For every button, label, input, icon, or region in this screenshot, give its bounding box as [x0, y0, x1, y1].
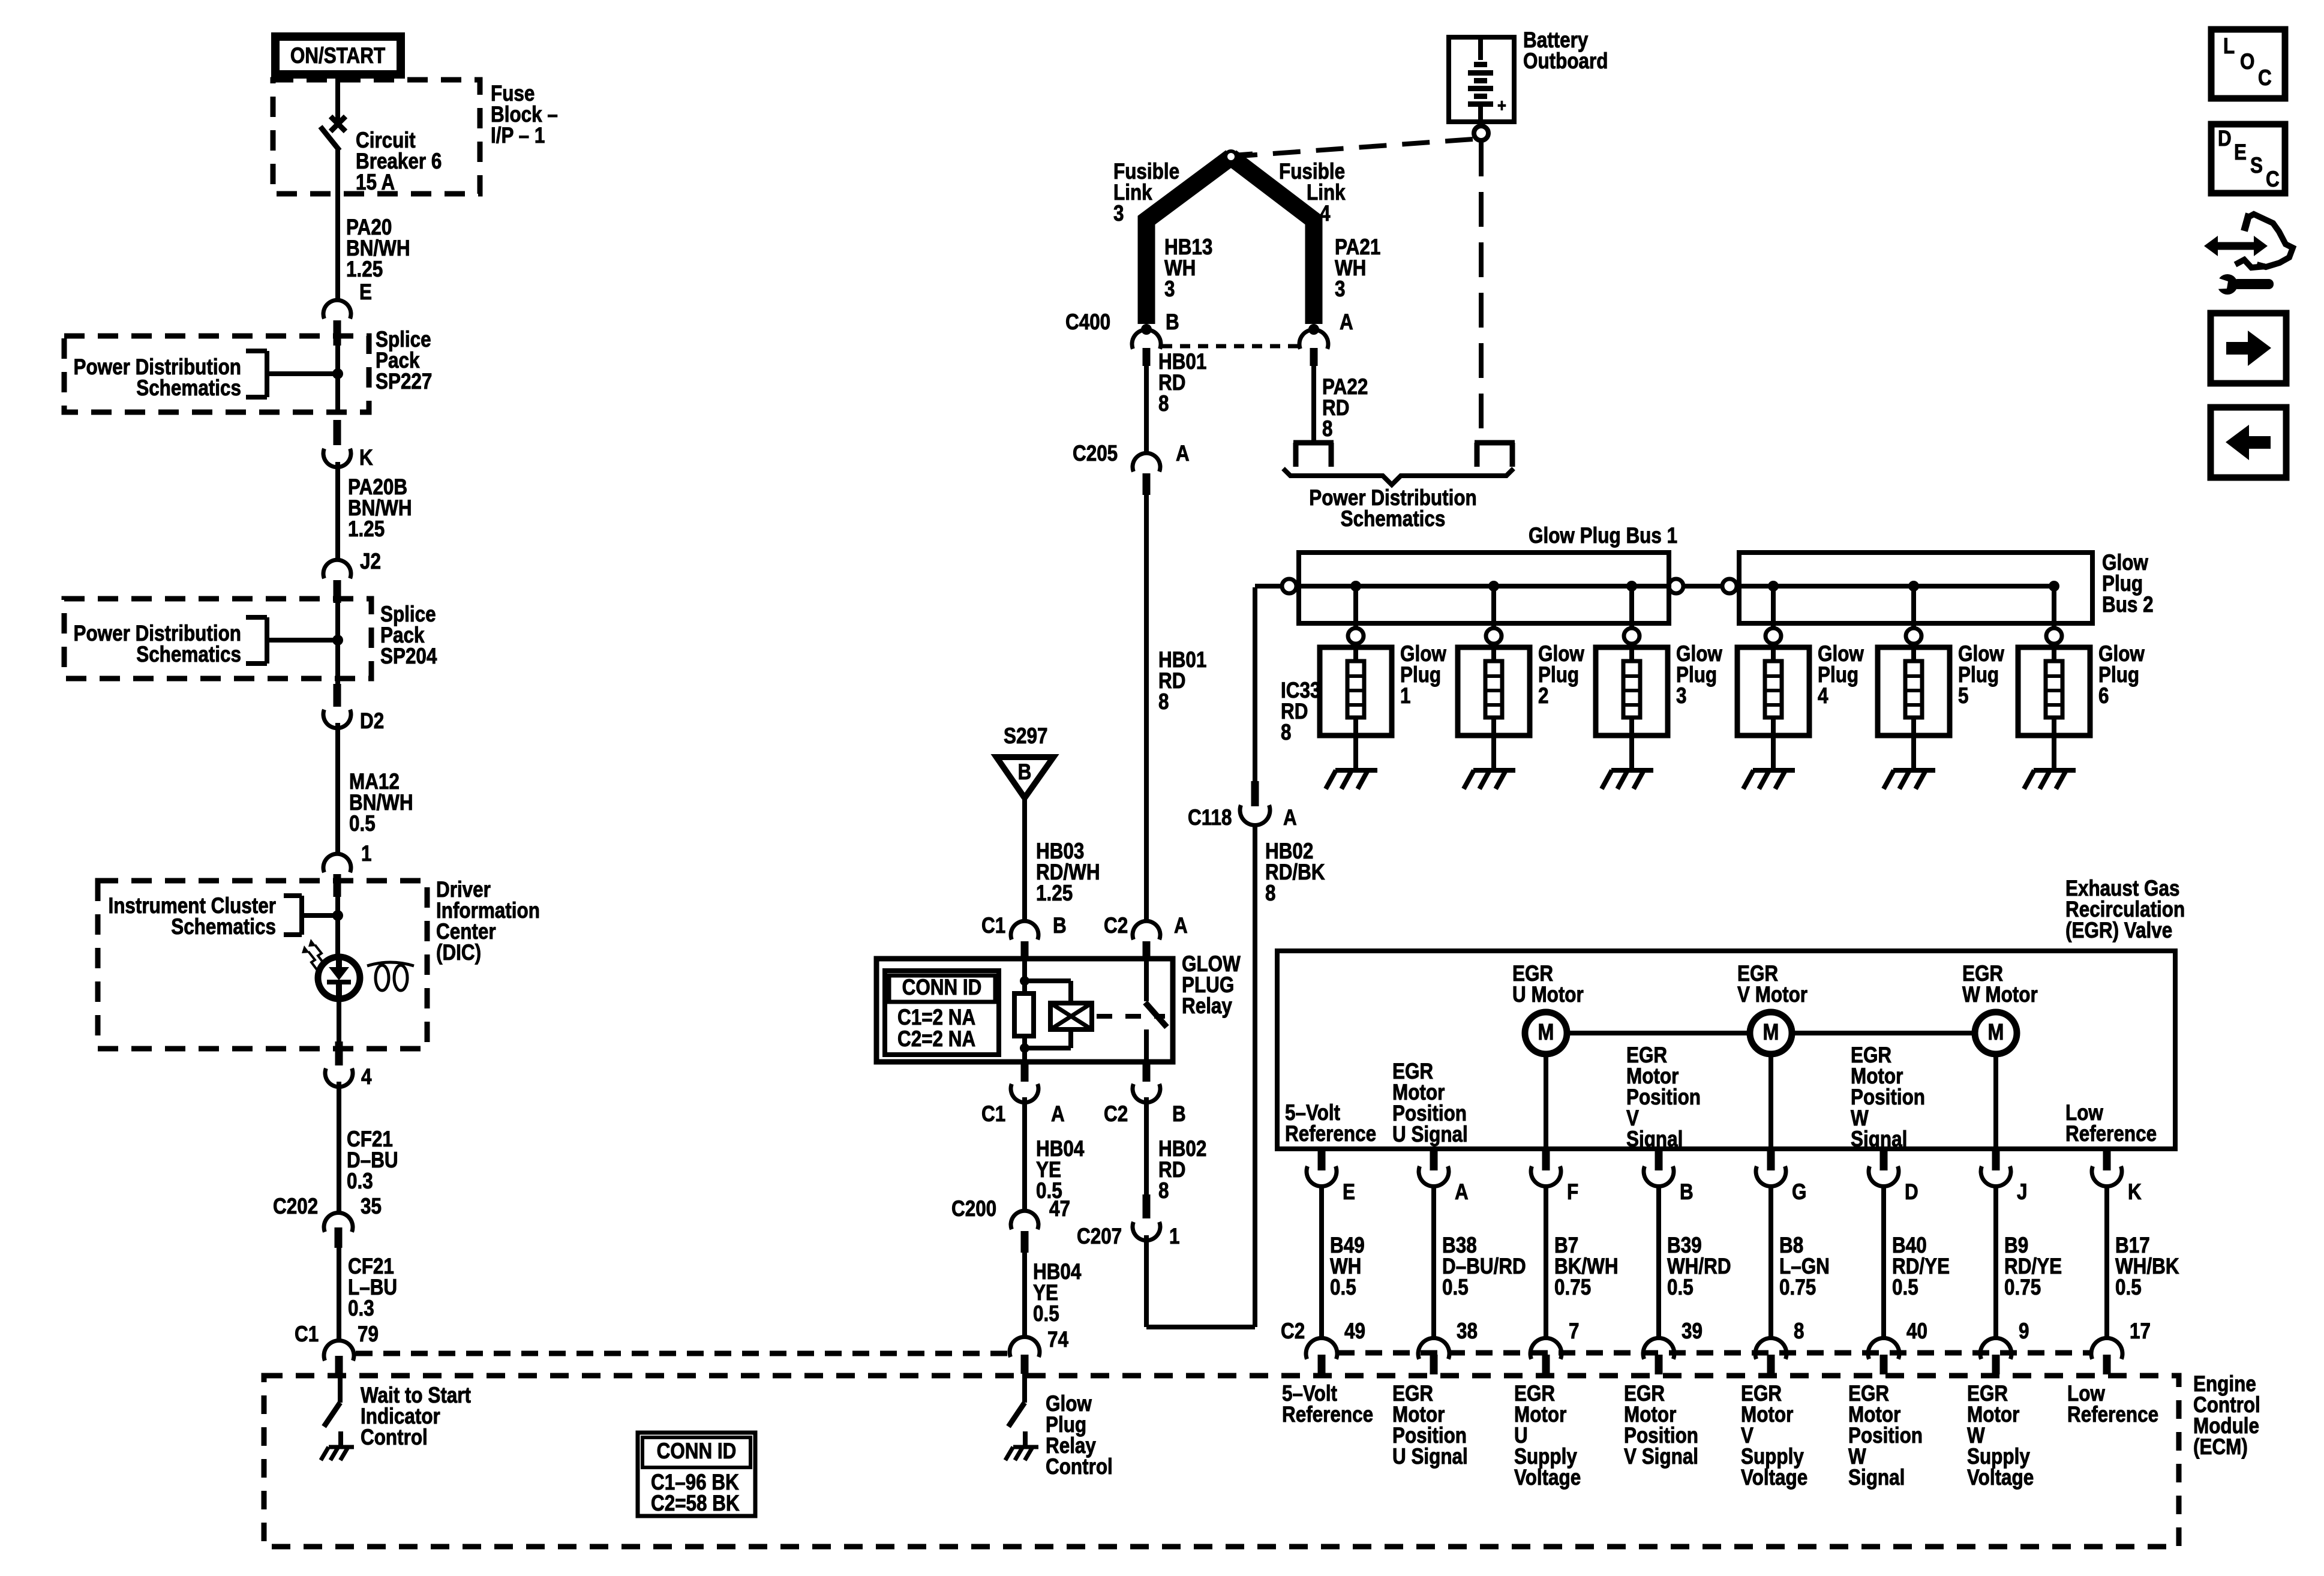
- svg-text:0.75: 0.75: [1554, 1275, 1591, 1300]
- svg-text:SP204: SP204: [380, 644, 437, 669]
- wire label B17 WH/BK 0.5: [2115, 1233, 2179, 1300]
- svg-text:5: 5: [1958, 684, 1968, 709]
- svg-text:8: 8: [1158, 392, 1169, 416]
- wire label HB02 RD 8: [1158, 1137, 1206, 1203]
- junction glow plug 5 tap: [1908, 581, 1919, 592]
- wire label B7 BK/WH 0.75: [1554, 1233, 1619, 1300]
- glow plug 1 heater element: [1347, 644, 1364, 770]
- svg-text:40: 40: [1906, 1319, 1927, 1344]
- EGR motor V: [1750, 1012, 1792, 1054]
- svg-text:C: C: [2266, 167, 2280, 192]
- label 5–Volt Reference (ECM): [1282, 1382, 1373, 1427]
- label Fusible Link 3: [1113, 160, 1179, 226]
- reference Power Distribution Schematics (SP227): [74, 351, 338, 401]
- connector C2 pin A (relay): [1104, 914, 1188, 960]
- svg-text:M: M: [1763, 1020, 1779, 1045]
- svg-text:Voltage: Voltage: [1967, 1466, 2034, 1490]
- wire to glow plug bus: [1255, 586, 1282, 781]
- glow plug 5 heater element: [1905, 644, 1922, 770]
- battery positive terminal: [1474, 126, 1488, 140]
- svg-text:0.75: 0.75: [2004, 1275, 2041, 1300]
- connector terminal K: [323, 420, 373, 470]
- svg-text:49: 49: [1344, 1319, 1365, 1344]
- svg-text:I/P – 1: I/P – 1: [491, 124, 545, 148]
- wire motor U to V: [1567, 1031, 1750, 1035]
- svg-text:17: 17: [2130, 1319, 2151, 1344]
- glow plug 2 heater element: [1485, 644, 1502, 770]
- EGR connector pin E: [1307, 1149, 1355, 1205]
- light arrows: [302, 939, 323, 969]
- svg-text:D: D: [2218, 127, 2232, 151]
- switch position box ON/START: [275, 37, 401, 74]
- label Glow Plug Relay Control: [1046, 1392, 1113, 1479]
- svg-text:Signal: Signal: [1851, 1127, 1907, 1152]
- connector C2 pin 8: [1755, 1319, 1804, 1374]
- svg-text:K: K: [2128, 1180, 2142, 1205]
- wire glow plug 3 drop: [1629, 586, 1634, 628]
- wire B39: [1656, 1187, 1661, 1339]
- svg-text:U Signal: U Signal: [1392, 1445, 1468, 1469]
- svg-text:CONN ID: CONN ID: [657, 1439, 737, 1464]
- svg-text:C2: C2: [1104, 1102, 1128, 1127]
- glow plug 4 box: [1737, 647, 1809, 736]
- svg-text:Signal: Signal: [1626, 1127, 1683, 1152]
- svg-text:4: 4: [1320, 202, 1330, 226]
- EGR motor W: [1975, 1012, 2017, 1054]
- svg-text:B: B: [1018, 760, 1032, 785]
- svg-text:39: 39: [1682, 1319, 1703, 1344]
- svg-text:U Motor: U Motor: [1512, 983, 1584, 1007]
- svg-text:L: L: [2223, 34, 2235, 59]
- svg-text:1: 1: [1400, 684, 1410, 709]
- svg-text:4: 4: [361, 1065, 371, 1089]
- label Battery Outboard: [1523, 28, 1608, 74]
- svg-text:Signal: Signal: [1848, 1466, 1905, 1490]
- svg-text:0.3: 0.3: [348, 1296, 374, 1321]
- svg-text:D2: D2: [360, 709, 384, 734]
- wire motor V to W: [1792, 1031, 1975, 1035]
- connector C200 pin 47: [951, 1197, 1070, 1253]
- svg-text:A: A: [1455, 1180, 1469, 1205]
- label Low Reference (EGR): [2065, 1101, 2157, 1146]
- svg-text:E: E: [1343, 1180, 1355, 1205]
- svg-text:74: 74: [1047, 1328, 1068, 1352]
- connector C1 pin 79: [295, 1322, 379, 1374]
- svg-text:3: 3: [1335, 277, 1345, 302]
- wire: [1022, 1097, 1027, 1210]
- wire glow plug 2 drop: [1491, 586, 1496, 628]
- junction glow plug 2 tap: [1488, 581, 1499, 592]
- wire glow plug 4 drop: [1771, 586, 1776, 628]
- bus 1 wire: [1296, 584, 1669, 589]
- svg-text:38: 38: [1457, 1319, 1478, 1344]
- wire glow plug 5 drop: [1911, 586, 1916, 628]
- svg-text:7: 7: [1569, 1319, 1579, 1344]
- wire motor W down: [1993, 1054, 1998, 1149]
- svg-text:J: J: [2017, 1180, 2027, 1205]
- svg-text:C207: C207: [1077, 1224, 1122, 1249]
- label Glow Plug 5: [1958, 642, 2004, 709]
- wire: [1022, 1253, 1027, 1338]
- svg-text:A: A: [1176, 442, 1190, 466]
- icon box back arrow: [2211, 407, 2286, 478]
- wire motor V down: [1768, 1054, 1773, 1149]
- relay resistor: [1014, 959, 1034, 1062]
- svg-text:15 A: 15 A: [356, 170, 395, 195]
- ground glow plug 3: [1602, 770, 1653, 789]
- wire: [335, 462, 340, 561]
- connector C2 pin B (relay): [1104, 1062, 1186, 1127]
- label Low Reference (ECM): [2067, 1382, 2158, 1427]
- label Glow Plug 2: [1538, 642, 1584, 709]
- label Glow Plug Bus 2: [2102, 551, 2154, 617]
- svg-text:6: 6: [2098, 684, 2109, 709]
- glow plug 3 terminal ring: [1624, 628, 1640, 644]
- svg-text:0.5: 0.5: [2115, 1275, 2142, 1300]
- fusible link 3 (thick wire): [1146, 157, 1231, 324]
- connector pin 74: [1010, 1328, 1068, 1374]
- connector row C400 dashed line: [1162, 344, 1298, 349]
- svg-text:C205: C205: [1073, 442, 1118, 466]
- svg-text:1.25: 1.25: [1036, 881, 1073, 906]
- label Splice Pack SP227: [376, 328, 432, 394]
- connector C2 pin 49: [1306, 1319, 1365, 1374]
- connector C2 pin 40: [1868, 1319, 1927, 1374]
- svg-text:(DIC): (DIC): [436, 941, 481, 965]
- svg-text:C1: C1: [981, 914, 1005, 938]
- brace Power Distribution Schematics: [1283, 469, 1514, 532]
- svg-text:Reference: Reference: [1285, 1122, 1376, 1146]
- label Fusible Link 4: [1279, 160, 1346, 226]
- junction glow plug 4 tap: [1768, 581, 1779, 592]
- svg-text:Glow Plug Bus 1: Glow Plug Bus 1: [1529, 524, 1677, 548]
- wire label CF21 L-BU 0.3: [348, 1254, 397, 1321]
- label EGR Motor Position W Signal (ECM): [1848, 1382, 1923, 1490]
- svg-text:C2: C2: [1104, 914, 1128, 938]
- svg-text:E: E: [2234, 140, 2247, 165]
- svg-text:C200: C200: [951, 1197, 996, 1221]
- svg-text:9: 9: [2019, 1319, 2029, 1344]
- svg-text:35: 35: [361, 1194, 382, 1219]
- wire: [1311, 366, 1316, 440]
- reference Instrument Cluster Schematics: [108, 894, 338, 939]
- ground glow plug 5: [1884, 770, 1935, 789]
- label Exhaust Gas Recirculation (EGR) Valve: [2065, 876, 2185, 943]
- wire: [335, 897, 340, 957]
- EGR connector pin J: [1981, 1149, 2027, 1205]
- label EGR Motor Position V Signal (ECM): [1624, 1382, 1698, 1469]
- glow plug 2 terminal ring: [1486, 628, 1502, 644]
- EGR connector pin F: [1531, 1149, 1578, 1205]
- glow plug 1 box: [1320, 647, 1392, 736]
- glow plug relay box: [876, 959, 1173, 1062]
- label EGR V Motor: [1737, 962, 1807, 1007]
- svg-text:1.25: 1.25: [346, 257, 383, 282]
- connector C2 pin 9: [1980, 1319, 2029, 1374]
- connector C2 pin 38: [1418, 1319, 1478, 1374]
- label Driver Information Center (DIC): [436, 878, 540, 965]
- svg-text:0.3: 0.3: [347, 1169, 373, 1194]
- connector C1 pin B (relay): [981, 914, 1067, 960]
- wire B49: [1319, 1187, 1324, 1339]
- label EGR Motor Position U Signal (ECM): [1392, 1382, 1468, 1469]
- wire label HB04 YE 0.5 (upper): [1036, 1137, 1084, 1203]
- svg-text:(ECM): (ECM): [2193, 1435, 2248, 1460]
- svg-text:Outboard: Outboard: [1523, 49, 1608, 74]
- CONN ID table (relay): [885, 971, 999, 1055]
- svg-text:C: C: [2258, 66, 2272, 91]
- label EGR Motor Position U Signal (EGR): [1392, 1059, 1468, 1147]
- svg-text:S: S: [2250, 154, 2263, 178]
- svg-text:1: 1: [1169, 1224, 1179, 1249]
- wire: [1144, 366, 1149, 454]
- svg-text:8: 8: [1794, 1319, 1804, 1344]
- wire label PA20 BN/WH 1.25: [346, 215, 410, 282]
- label 5-Volt Reference (EGR): [1285, 1101, 1376, 1146]
- label Glow Plug Bus 1: [1529, 524, 1677, 548]
- svg-text:+: +: [1497, 95, 1506, 115]
- wire label CF21 D-BU 0.3: [347, 1127, 398, 1194]
- svg-text:C2=2 NA: C2=2 NA: [897, 1027, 975, 1052]
- svg-text:Relay: Relay: [1182, 994, 1232, 1019]
- glow plug 2 box: [1458, 647, 1530, 736]
- svg-text:8: 8: [1322, 417, 1332, 442]
- svg-text:V Signal: V Signal: [1624, 1445, 1698, 1469]
- svg-text:A: A: [1174, 914, 1188, 938]
- dashed wire battery to fusible links: [1239, 139, 1473, 156]
- svg-text:Control: Control: [361, 1425, 428, 1450]
- svg-text:C1: C1: [981, 1102, 1005, 1127]
- svg-text:0.5: 0.5: [1442, 1275, 1469, 1300]
- ring terminal (battery lead): [1475, 443, 1515, 467]
- svg-text:3: 3: [1113, 202, 1124, 226]
- connector C1 pin A (relay): [981, 1062, 1065, 1127]
- svg-text:1: 1: [361, 842, 371, 866]
- svg-text:1.25: 1.25: [348, 517, 385, 542]
- wire label B39 WH/RD 0.5: [1667, 1233, 1731, 1300]
- junction relay coil top: [1020, 976, 1029, 986]
- wire label HB04 YE 0.5 (lower): [1033, 1260, 1081, 1326]
- svg-text:3: 3: [1164, 277, 1175, 302]
- relay actuation dashed link: [1097, 1014, 1165, 1019]
- svg-text:8: 8: [1158, 690, 1169, 715]
- svg-text:C118: C118: [1188, 806, 1232, 830]
- connector terminal 1: [323, 842, 371, 897]
- svg-text:SP227: SP227: [376, 370, 432, 394]
- connector terminal 4: [325, 1041, 371, 1089]
- svg-text:D: D: [1905, 1180, 1918, 1205]
- svg-text:C1=2 NA: C1=2 NA: [897, 1005, 975, 1030]
- label C2 (ECM connector): [1281, 1319, 1305, 1344]
- icon box LOC: [2211, 29, 2285, 98]
- wire: [337, 1082, 341, 1212]
- svg-text:B: B: [1166, 310, 1179, 335]
- CONN ID table (ECM connectors): [638, 1433, 755, 1516]
- svg-text:U Signal: U Signal: [1392, 1122, 1468, 1147]
- EGR connector pin D: [1869, 1149, 1918, 1205]
- svg-text:CONN ID: CONN ID: [902, 975, 982, 1000]
- svg-text:C2: C2: [1281, 1319, 1305, 1344]
- svg-text:A: A: [1340, 310, 1353, 335]
- svg-text:A: A: [1283, 806, 1297, 830]
- EGR connector pin K: [2092, 1149, 2142, 1205]
- svg-text:C1: C1: [295, 1322, 319, 1347]
- wire label PA21 WH 3: [1335, 235, 1380, 302]
- relay coil: [1025, 981, 1092, 1048]
- wire label B40 RD/YE 0.5: [1892, 1233, 1950, 1300]
- connector row C2 dashed line: [1338, 1350, 2090, 1356]
- label EGR Motor Position V Signal (EGR): [1626, 1043, 1701, 1152]
- svg-text:ON/START: ON/START: [290, 44, 385, 68]
- svg-text:C202: C202: [273, 1194, 318, 1219]
- glow plug 3 heater element: [1623, 644, 1640, 770]
- wire label PA20B BN/WH 1.25: [348, 475, 412, 542]
- connector C205 pin A: [1073, 442, 1190, 495]
- svg-text:2: 2: [1538, 684, 1548, 709]
- EGR connector pin A: [1419, 1149, 1469, 1205]
- label Glow Plug 6: [2098, 642, 2145, 709]
- svg-text:S297: S297: [1004, 724, 1047, 749]
- wire to C118: [1146, 827, 1255, 1327]
- label Splice Pack SP204: [380, 602, 437, 669]
- svg-text:A: A: [1051, 1102, 1065, 1127]
- label Glow Plug 3: [1676, 642, 1722, 709]
- ground glow plug 6: [2024, 770, 2076, 789]
- connector row C1 dashed line: [356, 1351, 1008, 1356]
- svg-text:F: F: [1567, 1180, 1578, 1205]
- svg-text:4: 4: [1818, 684, 1828, 709]
- engine control module dashed box: [264, 1376, 2179, 1547]
- icon box next arrow: [2211, 313, 2286, 383]
- wire: [1022, 798, 1027, 919]
- junction relay coil bottom: [1020, 1043, 1029, 1053]
- svg-text:8: 8: [1158, 1179, 1169, 1203]
- svg-text:Schematics: Schematics: [171, 915, 276, 939]
- svg-text:M: M: [1538, 1020, 1554, 1045]
- connector terminal E: [323, 280, 372, 346]
- wire: [335, 336, 340, 414]
- EGR connector pin B: [1644, 1149, 1694, 1205]
- svg-text:Reference: Reference: [1282, 1403, 1373, 1427]
- wire label HB01 RD 8 (upper): [1158, 350, 1206, 416]
- connector C2 pin 7: [1530, 1319, 1579, 1374]
- glow plug 1 terminal ring: [1348, 628, 1364, 644]
- wire: [1144, 1097, 1149, 1197]
- svg-text:0.5: 0.5: [349, 812, 376, 836]
- svg-text:8: 8: [1265, 881, 1275, 906]
- svg-text:B: B: [1053, 914, 1067, 938]
- battery outboard box: [1449, 37, 1514, 122]
- ground glow plug 1: [1326, 770, 1377, 789]
- junction glow plug 1 tap: [1350, 581, 1361, 592]
- svg-text:Control: Control: [1046, 1455, 1113, 1479]
- bus 1 right ring: [1669, 579, 1683, 593]
- wire: [1144, 495, 1149, 921]
- wire B9: [1993, 1187, 1998, 1339]
- svg-text:B: B: [1172, 1102, 1186, 1127]
- EGR valve box: [1277, 951, 2175, 1149]
- wire glow plug 6 drop: [2052, 586, 2056, 628]
- junction glow plug 6 tap: [2049, 581, 2059, 592]
- wire label HB13 WH 3: [1164, 235, 1212, 302]
- svg-text:0.5: 0.5: [1667, 1275, 1694, 1300]
- svg-text:Schematics: Schematics: [136, 643, 241, 667]
- connector C2 pin 17: [2091, 1319, 2151, 1374]
- switch Glow Plug Relay Control: [1005, 1374, 1038, 1460]
- wire label PA22 RD 8: [1322, 375, 1368, 442]
- wire B8: [1768, 1187, 1773, 1339]
- wire: [335, 603, 340, 684]
- wire motor U down: [1544, 1054, 1548, 1149]
- driver information center dashed box: [98, 881, 427, 1049]
- svg-text:0.5: 0.5: [1033, 1302, 1059, 1326]
- svg-text:K: K: [359, 446, 373, 470]
- svg-text:Voltage: Voltage: [1514, 1466, 1581, 1490]
- label EGR U Motor: [1512, 962, 1584, 1007]
- splice S297: [996, 724, 1053, 798]
- svg-text:0.5: 0.5: [1330, 1275, 1356, 1300]
- wire label B8 L–GN 0.75: [1779, 1233, 1830, 1300]
- svg-text:J2: J2: [360, 550, 381, 574]
- connector C207 pin 1: [1077, 1194, 1179, 1249]
- svg-text:G: G: [1792, 1180, 1806, 1205]
- wire B17: [2104, 1187, 2109, 1339]
- label EGR Motor U Supply Voltage (ECM): [1514, 1382, 1581, 1490]
- indicator lamp (Wait to Start LED): [318, 957, 360, 999]
- svg-text:C400: C400: [1065, 310, 1110, 335]
- glow plug 6 box: [2018, 647, 2090, 736]
- svg-text:79: 79: [358, 1322, 379, 1347]
- svg-text:0.75: 0.75: [1779, 1275, 1816, 1300]
- wire label HB02 RD/BK 8: [1265, 839, 1325, 906]
- fusible link apex ring: [1226, 151, 1253, 162]
- glow plug bus 2 bar: [1739, 553, 2092, 623]
- wire label HB01 RD 8 (lower): [1158, 648, 1206, 715]
- label EGR Motor Position W Signal (EGR): [1851, 1043, 1925, 1152]
- svg-text:Schematics: Schematics: [1341, 507, 1446, 532]
- svg-text:W Motor: W Motor: [1962, 983, 2038, 1007]
- glow plug 4 heater element: [1765, 644, 1782, 770]
- glow plug 4 terminal ring: [1765, 628, 1781, 644]
- connector terminal J2: [323, 550, 381, 603]
- icon hand with wrench: [2204, 214, 2293, 295]
- junction DIC: [332, 910, 343, 921]
- fuse block I/P dashed box: [273, 80, 480, 194]
- svg-text:8: 8: [1281, 721, 1291, 745]
- label GLOW PLUG Relay: [1182, 952, 1241, 1019]
- glow plug bus 1 bar: [1299, 553, 1669, 623]
- wire: [337, 1248, 341, 1340]
- bus 2 wire: [1737, 584, 2054, 589]
- fusible link 4 (thick wire): [1231, 157, 1314, 324]
- battery symbol: [1468, 40, 1506, 119]
- svg-text:Reference: Reference: [2067, 1403, 2158, 1427]
- svg-text:M: M: [1988, 1020, 2004, 1045]
- wire glow plug 1 drop: [1353, 586, 1358, 628]
- circuit breaker 6 15A: [320, 116, 442, 300]
- svg-text:E: E: [359, 280, 372, 305]
- junction SP227: [332, 368, 343, 379]
- svg-text:Reference: Reference: [2065, 1122, 2157, 1146]
- junction SP204: [332, 635, 343, 646]
- ground glow plug 2: [1464, 770, 1515, 789]
- glow plug 6 terminal ring: [2046, 628, 2062, 644]
- junction glow plug 3 tap: [1626, 581, 1637, 592]
- label Glow Plug 1: [1400, 642, 1446, 709]
- glow plug 6 heater element: [2046, 644, 2062, 770]
- wire label IC33 RD 8: [1281, 679, 1320, 745]
- wire label HB03 RD/WH 1.25: [1036, 839, 1100, 906]
